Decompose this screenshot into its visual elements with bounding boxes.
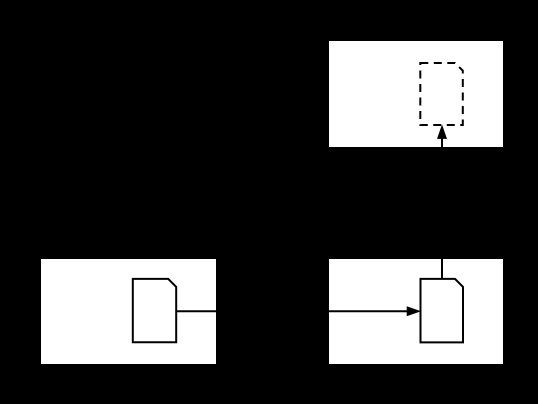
wire L1 (horizontal connector from A2 to A3) [176, 310, 408, 312]
node box B3 (bottom right) [329, 259, 503, 364]
arrowhead of L2 (points up into A1) [438, 126, 447, 138]
node box B1 (top right) [329, 41, 503, 147]
artifact A2 (solid, in bottom-left box) [133, 279, 176, 342]
artifact A3 (solid, in bottom-right box) [421, 279, 464, 343]
node box B2 (bottom left) [41, 259, 216, 364]
wire L2 (vertical connector from A3 up to A1) [441, 138, 443, 279]
arrowhead of L1 (points right into A3) [407, 307, 419, 316]
artifact A1 (dashed placeholder, in top-right box) [420, 63, 463, 125]
